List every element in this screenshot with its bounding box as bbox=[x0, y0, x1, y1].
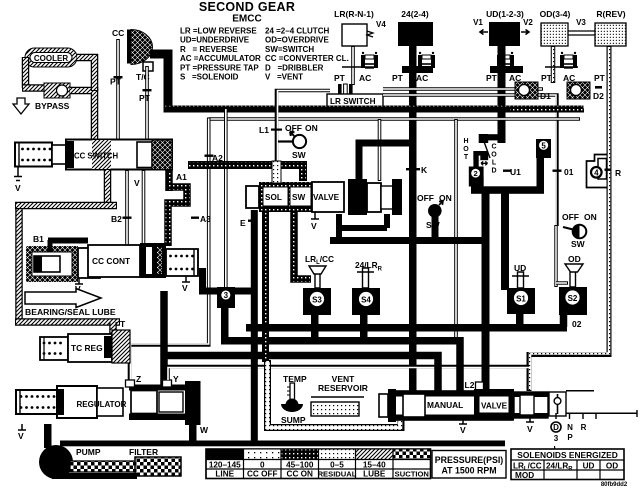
svg-text:R: R bbox=[581, 423, 587, 432]
wire LR pt/ac crossbar bbox=[342, 66, 378, 68]
svg-text:V: V bbox=[311, 221, 317, 231]
bypass valve bbox=[44, 83, 70, 98]
wire channel SW to S2 bbox=[554, 225, 557, 287]
torque converter T/C bbox=[127, 30, 153, 72]
wire ccon vertical V2 bbox=[262, 212, 269, 362]
svg-text:LR SWITCH: LR SWITCH bbox=[330, 97, 376, 106]
svg-text:T: T bbox=[120, 319, 126, 329]
label A3 bbox=[191, 217, 199, 219]
svg-text:UD(1-2-3): UD(1-2-3) bbox=[486, 9, 524, 19]
wire line UD to thermal bbox=[485, 134, 505, 140]
wire lube cooler-left-down bbox=[22, 57, 30, 88]
vent V (sol valve) bbox=[311, 212, 319, 219]
valve CC SWITCH body bbox=[52, 140, 172, 170]
wire channel T/C PT down to CC SWITCH bbox=[145, 66, 149, 142]
svg-text:S1: S1 bbox=[516, 294, 526, 303]
svg-text:K: K bbox=[421, 165, 428, 175]
wire line S1 drop bbox=[516, 314, 524, 328]
node 3 bbox=[220, 290, 231, 301]
svg-text:OFF: OFF bbox=[417, 193, 434, 203]
svg-text:S =SOLENOID: S =SOLENOID bbox=[180, 73, 239, 82]
solenoid S2 funnel bbox=[565, 264, 583, 287]
svg-text:A1: A1 bbox=[176, 172, 187, 182]
pressure tap PT (R line) bbox=[595, 86, 602, 89]
svg-text:Z: Z bbox=[136, 374, 141, 384]
svg-text:C: C bbox=[491, 144, 496, 151]
wire line valve bottom frame bbox=[339, 214, 387, 240]
node 2 bbox=[469, 167, 484, 189]
wire channel to SOL valve top (from 0-line) bbox=[378, 119, 382, 181]
svg-text:TC REG: TC REG bbox=[71, 343, 103, 353]
wire line bottom run bbox=[60, 441, 505, 447]
svg-text:CC OFF: CC OFF bbox=[247, 470, 277, 479]
svg-text:V: V bbox=[527, 424, 533, 434]
svg-text:SW: SW bbox=[292, 150, 307, 160]
valve MANUAL body bbox=[395, 391, 513, 420]
svg-text:LR(R-N-1): LR(R-N-1) bbox=[334, 9, 374, 19]
valve TC REG body bbox=[68, 334, 112, 362]
wire lube bypass to cc-switch drop bbox=[70, 91, 95, 141]
port W drop bbox=[189, 424, 197, 446]
svg-text:O: O bbox=[491, 152, 497, 159]
svg-text:OD=OVERDRIVE: OD=OVERDRIVE bbox=[265, 36, 329, 45]
node 5 bbox=[536, 139, 551, 191]
gear rail bbox=[566, 391, 637, 414]
svg-text:RESERVOIR: RESERVOIR bbox=[318, 383, 368, 393]
wire lube to bypass bbox=[22, 84, 46, 92]
wire line CC CONT down-right bbox=[203, 268, 254, 291]
svg-text:RESIDUAL: RESIDUAL bbox=[318, 470, 357, 479]
vent V (spool) bbox=[526, 418, 534, 422]
svg-text:V: V bbox=[460, 425, 466, 435]
filter symbol (LR switch inlet) bbox=[338, 84, 353, 97]
svg-text:COOLER: COOLER bbox=[34, 54, 68, 63]
labels PT/AC row bbox=[334, 73, 606, 83]
svg-text:SW=SWITCH: SW=SWITCH bbox=[265, 45, 314, 54]
thermometer temp sensor bbox=[281, 383, 303, 412]
svg-text:CC: CC bbox=[112, 28, 124, 38]
vent V (cc cont right) bbox=[182, 276, 190, 282]
vent V4 bbox=[367, 31, 373, 37]
svg-text:H: H bbox=[463, 138, 468, 145]
spring L1 entry bbox=[272, 161, 281, 183]
svg-text:A3: A3 bbox=[200, 214, 211, 224]
svg-text:CC CONT: CC CONT bbox=[92, 256, 131, 266]
svg-text:01: 01 bbox=[564, 167, 574, 177]
svg-text:24(2-4): 24(2-4) bbox=[401, 9, 429, 19]
svg-text:O: O bbox=[463, 146, 469, 153]
svg-text:REGULATOR: REGULATOR bbox=[77, 400, 127, 409]
valve CC CONT lands bbox=[140, 243, 166, 278]
svg-text:L1: L1 bbox=[259, 125, 269, 135]
svg-text:FILTER: FILTER bbox=[129, 447, 158, 457]
svg-text:OD: OD bbox=[606, 462, 618, 471]
solenoid S4 stem bbox=[357, 268, 374, 288]
svg-text:V1: V1 bbox=[473, 18, 483, 27]
svg-text:24 =2–4 CLUTCH: 24 =2–4 CLUTCH bbox=[265, 27, 329, 36]
wire line thermal bottom bar bbox=[471, 186, 544, 194]
accumulator AC-24 bbox=[418, 52, 435, 68]
svg-text:D: D bbox=[491, 168, 496, 175]
svg-text:OD(3-4): OD(3-4) bbox=[540, 9, 571, 19]
suction channel filter-pump bbox=[70, 461, 137, 472]
residual channel (sump walls) bbox=[268, 360, 402, 428]
thermal valve body bbox=[473, 134, 490, 170]
wire OD pt crossbar bbox=[545, 66, 578, 68]
svg-text:0: 0 bbox=[260, 461, 265, 470]
wire UD pt/ac crossbar bbox=[490, 66, 523, 73]
valve CC SWITCH end block bbox=[152, 140, 172, 170]
wire line K branch to valve bbox=[359, 143, 414, 180]
wire lube top bar (B1 box) bbox=[15, 202, 117, 210]
svg-text:L2: L2 bbox=[465, 380, 475, 390]
wire channel OD down to D1 bbox=[551, 46, 556, 83]
svg-text:E: E bbox=[240, 218, 246, 228]
svg-text:PT =PRESSURE TAP: PT =PRESSURE TAP bbox=[180, 63, 259, 72]
svg-text:D1: D1 bbox=[540, 91, 551, 101]
clutch R bbox=[595, 23, 626, 46]
wire ccon A3 jog bbox=[168, 187, 187, 246]
wire lube cooler-right to drop bbox=[77, 58, 95, 92]
svg-text:V: V bbox=[18, 431, 24, 441]
svg-text:SOL: SOL bbox=[265, 193, 282, 202]
svg-text:R = REVERSE: R = REVERSE bbox=[180, 45, 238, 54]
svg-text:CC =CONVERTER CL.: CC =CONVERTER CL. bbox=[265, 54, 349, 63]
svg-text:MANUAL: MANUAL bbox=[427, 400, 463, 410]
vent reservoir tank bbox=[311, 397, 364, 416]
svg-text:V: V bbox=[134, 178, 140, 188]
valve spool barrels bbox=[367, 183, 393, 212]
wire line barD bbox=[330, 237, 486, 244]
svg-text:CC SWITCH: CC SWITCH bbox=[74, 152, 119, 161]
wire line UD clutch down bbox=[498, 46, 506, 143]
svg-text:PRESSURE(PSI): PRESSURE(PSI) bbox=[435, 455, 504, 465]
port Y bbox=[163, 380, 172, 387]
accumulator AC-LR bbox=[361, 52, 378, 68]
valve block VALVE bbox=[474, 389, 514, 420]
junction 3 pedestal bbox=[217, 287, 235, 308]
svg-text:AC: AC bbox=[416, 73, 428, 83]
svg-text:4: 4 bbox=[594, 169, 599, 178]
svg-text:LUBE: LUBE bbox=[363, 470, 386, 479]
svg-text:SECOND GEAR: SECOND GEAR bbox=[199, 0, 295, 14]
check valve bracket 4 bbox=[587, 155, 608, 188]
valve REGULATOR body bbox=[57, 386, 127, 418]
svg-text:PT: PT bbox=[392, 73, 404, 83]
valve TC REG end bbox=[104, 330, 130, 363]
wire line barC bbox=[164, 356, 438, 393]
solenoid S1 bbox=[507, 288, 535, 314]
wire ccon drop to S3 bbox=[294, 212, 311, 279]
clutch LR bbox=[342, 24, 367, 46]
clutch 24 bbox=[398, 22, 433, 46]
svg-text:BYPASS: BYPASS bbox=[35, 101, 70, 111]
valve REGULATOR spring bbox=[16, 390, 57, 414]
svg-text:ON: ON bbox=[305, 123, 318, 133]
wire residual R line down right side bbox=[529, 46, 609, 391]
wire line big vertical V1 bbox=[251, 210, 258, 445]
wire line 24 clutch down (K line) bbox=[409, 46, 417, 392]
svg-text:R(REV): R(REV) bbox=[596, 9, 625, 19]
bearing lube arrow bbox=[25, 289, 101, 308]
svg-text:45–100: 45–100 bbox=[286, 461, 314, 470]
solenoid S2 bbox=[559, 287, 587, 315]
solenoid S3 bbox=[303, 288, 331, 315]
label B2 bbox=[123, 217, 132, 219]
wire lube T stub bbox=[109, 322, 117, 334]
label U1 bbox=[503, 170, 511, 172]
solenoids energized table bbox=[511, 449, 624, 480]
pressure tap PT (CC line) bbox=[114, 76, 123, 78]
svg-text:SW: SW bbox=[292, 193, 305, 202]
valve VALVE section bbox=[312, 182, 344, 212]
wire B1 link bbox=[48, 238, 88, 244]
wire channel CC down to CC SWITCH bbox=[116, 39, 120, 142]
svg-text:S2: S2 bbox=[568, 294, 578, 303]
svg-text:N: N bbox=[567, 423, 573, 432]
svg-text:2: 2 bbox=[473, 169, 477, 178]
svg-text:V4: V4 bbox=[376, 20, 386, 29]
solenoid S4 bbox=[352, 288, 380, 315]
svg-text:OFF: OFF bbox=[562, 212, 579, 222]
wire line S4 drop to barB bbox=[360, 315, 368, 341]
pump base bbox=[52, 473, 137, 479]
svg-text:PUMP: PUMP bbox=[76, 447, 101, 457]
wire line barB bbox=[221, 341, 460, 392]
svg-text:PT: PT bbox=[594, 73, 606, 83]
valve TC REG spring bbox=[40, 337, 68, 360]
filter FILTER bbox=[135, 457, 181, 476]
valve CC CONT spring bbox=[166, 249, 198, 276]
wire channel 0-line under band bbox=[209, 117, 580, 120]
svg-text:80fb9dd2: 80fb9dd2 bbox=[601, 482, 628, 488]
label HOT bbox=[463, 138, 469, 161]
svg-text:3: 3 bbox=[224, 291, 229, 300]
svg-text:SOLENOIDS ENERGIZED: SOLENOIDS ENERGIZED bbox=[517, 450, 618, 460]
svg-text:Y: Y bbox=[173, 374, 179, 384]
svg-text:B1: B1 bbox=[33, 234, 44, 244]
svg-text:EMCC: EMCC bbox=[232, 14, 261, 25]
valve right cap bbox=[392, 179, 402, 215]
svg-text:D2: D2 bbox=[593, 91, 604, 101]
pump PUMP bbox=[39, 445, 73, 479]
wire line left leg to regulator bbox=[160, 291, 168, 386]
label L1 bbox=[271, 129, 282, 131]
port Z bbox=[126, 380, 135, 387]
wire line SW down to barD bbox=[432, 216, 439, 240]
svg-text:LINE: LINE bbox=[215, 470, 234, 479]
svg-text:D: D bbox=[553, 423, 559, 432]
valve right spool bbox=[514, 392, 548, 418]
svg-text:AC: AC bbox=[359, 73, 371, 83]
svg-text:ON: ON bbox=[584, 212, 597, 222]
svg-text:BEARING/SEAL LUBE: BEARING/SEAL LUBE bbox=[25, 307, 116, 317]
svg-text:3: 3 bbox=[554, 434, 559, 443]
wire line S3 drop to barB bbox=[311, 315, 319, 341]
wire channel LR clutch down bbox=[351, 46, 355, 85]
wire line VALVE feed down bbox=[482, 193, 490, 392]
wire channel PT line through to CC CONT bbox=[142, 170, 146, 247]
svg-text:OD: OD bbox=[568, 254, 581, 264]
svg-text:V: V bbox=[182, 283, 188, 293]
svg-text:W: W bbox=[200, 425, 209, 435]
valve CC CONT piston bbox=[78, 248, 100, 278]
vent V (manual) bbox=[459, 420, 467, 424]
valve MANUAL left cap bbox=[379, 389, 396, 422]
cooler COOLER bbox=[25, 48, 77, 67]
svg-text:P: P bbox=[567, 433, 573, 442]
valve CC SWITCH spring bbox=[15, 143, 52, 167]
svg-text:VALVE: VALVE bbox=[481, 402, 508, 411]
wire lube CC SWITCH bottom to B1 box bbox=[104, 170, 112, 207]
wire channel 01 tick bbox=[553, 170, 562, 172]
wire lube left vertical bbox=[15, 202, 23, 325]
svg-text:V: V bbox=[15, 183, 21, 193]
port L2 bbox=[476, 382, 484, 391]
wire channel to junction 3 bbox=[224, 108, 228, 288]
wire channel Y up and right bbox=[168, 367, 529, 381]
svg-text:V2: V2 bbox=[523, 18, 533, 27]
valve LR SWITCH bbox=[327, 94, 383, 107]
wire channel LR SWITCH outputs right bbox=[383, 87, 543, 90]
servo B1 bbox=[26, 246, 78, 282]
solenoid S1 stem bbox=[512, 272, 529, 288]
svg-text:02: 02 bbox=[572, 319, 582, 329]
dribbler D2 bbox=[567, 82, 590, 99]
svg-text:VALVE: VALVE bbox=[313, 193, 340, 202]
clutch OD bbox=[541, 23, 568, 46]
svg-text:R: R bbox=[615, 168, 621, 178]
wire ccon A1 stub bbox=[165, 170, 173, 192]
legend text block bbox=[180, 27, 349, 82]
svg-text:SW: SW bbox=[571, 239, 586, 249]
wire lube bottom bar bbox=[15, 318, 120, 326]
main band: cc-on stipple overlay bbox=[164, 106, 584, 109]
svg-text:T: T bbox=[464, 154, 469, 161]
wire line junction3 down bbox=[221, 308, 229, 341]
pressure tap PT (T/C line) bbox=[143, 89, 152, 91]
wire channel B2 down bbox=[125, 170, 129, 248]
svg-text:AC =ACCUMULATOR: AC =ACCUMULATOR bbox=[180, 54, 261, 63]
valve CC CONT body bbox=[88, 245, 140, 277]
wire channel L1 (from LR switch to SOL spring) bbox=[277, 91, 331, 163]
svg-text:LR =LOW REVERSE: LR =LOW REVERSE bbox=[180, 27, 257, 36]
svg-text:PT: PT bbox=[139, 93, 151, 103]
svg-text:PT: PT bbox=[334, 73, 346, 83]
svg-text:V3: V3 bbox=[576, 18, 586, 27]
wire line UD drop to S1 bbox=[501, 193, 509, 290]
accumulator AC-OD bbox=[560, 52, 577, 68]
pressure psi box bbox=[432, 451, 506, 479]
wire line barA (02 run) bbox=[246, 324, 567, 332]
wire 24 pt/ac crossbar bbox=[402, 66, 433, 73]
svg-text:S3: S3 bbox=[312, 295, 322, 304]
wire ccon band from CC SWITCH to SOL valve bbox=[188, 165, 303, 181]
arrow left-right bbox=[481, 161, 488, 165]
svg-text:V =VENT: V =VENT bbox=[265, 73, 303, 82]
main band: line pressure bbox=[164, 106, 584, 113]
label R bbox=[605, 169, 612, 171]
svg-text:AT 1500 RPM: AT 1500 RPM bbox=[441, 466, 496, 476]
svg-text:SUMP: SUMP bbox=[281, 415, 306, 425]
svg-text:UD=UNDERDRIVE: UD=UNDERDRIVE bbox=[180, 36, 250, 45]
vent V (cc cont left) bbox=[75, 278, 83, 284]
svg-text:0–5: 0–5 bbox=[330, 461, 344, 470]
svg-text:PT: PT bbox=[110, 77, 122, 87]
svg-text:5: 5 bbox=[541, 142, 546, 151]
dribbler D1 bbox=[515, 82, 538, 99]
svg-text:15–40: 15–40 bbox=[363, 461, 386, 470]
svg-text:UD: UD bbox=[583, 462, 595, 471]
pressure legend table bbox=[206, 449, 431, 479]
svg-text:U1: U1 bbox=[510, 167, 521, 177]
svg-text:PT: PT bbox=[486, 73, 498, 83]
label COLD bbox=[491, 144, 497, 175]
svg-text:CC ON: CC ON bbox=[287, 470, 313, 479]
wire channel A2 (down left, to Z) bbox=[130, 118, 209, 388]
svg-text:S4: S4 bbox=[361, 295, 371, 304]
svg-text:120–145: 120–145 bbox=[209, 461, 241, 470]
gear labels DNRPL bbox=[551, 422, 587, 454]
svg-text:MOD: MOD bbox=[515, 471, 534, 480]
wire line T/C out to main band bbox=[150, 54, 168, 110]
solenoid S3 funnel bbox=[309, 266, 326, 288]
wire line regulator to pump bbox=[44, 424, 52, 448]
valve SOL/SW/VALVE left piston bbox=[246, 186, 259, 208]
valve SOL/SW sleeve bbox=[259, 182, 312, 212]
clutch UD bbox=[489, 22, 520, 46]
svg-text:D =DRIBBLER: D =DRIBBLER bbox=[265, 63, 324, 72]
valve REGULATOR spool bbox=[129, 381, 201, 425]
svg-text:L: L bbox=[492, 160, 497, 167]
svg-text:SUCTION: SUCTION bbox=[395, 470, 429, 479]
valve land black bbox=[348, 179, 367, 215]
vent V (regulator) bbox=[18, 424, 26, 430]
label A2 bbox=[205, 155, 214, 157]
vent V (cc switch left) bbox=[14, 167, 22, 181]
gear gate box bbox=[549, 392, 566, 416]
vent arrow down (cooler drain) bbox=[13, 98, 29, 114]
accumulator AC-UD bbox=[497, 52, 514, 68]
svg-text:B2: B2 bbox=[111, 214, 122, 224]
wire channel mid drop x456 bbox=[454, 119, 458, 338]
